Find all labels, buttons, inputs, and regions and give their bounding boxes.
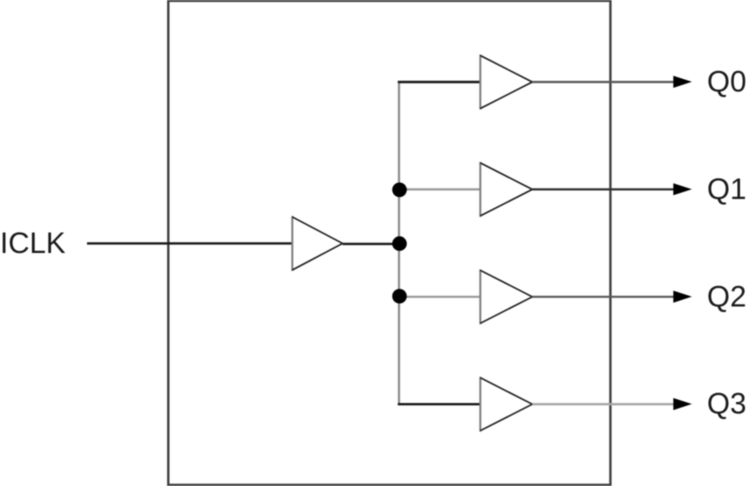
svg-text:Q2: Q2 xyxy=(707,280,746,313)
svg-text:Q3: Q3 xyxy=(707,388,746,421)
svg-text:ICLK: ICLK xyxy=(0,227,66,260)
svg-text:Q1: Q1 xyxy=(707,173,746,206)
svg-text:Q0: Q0 xyxy=(707,66,746,99)
